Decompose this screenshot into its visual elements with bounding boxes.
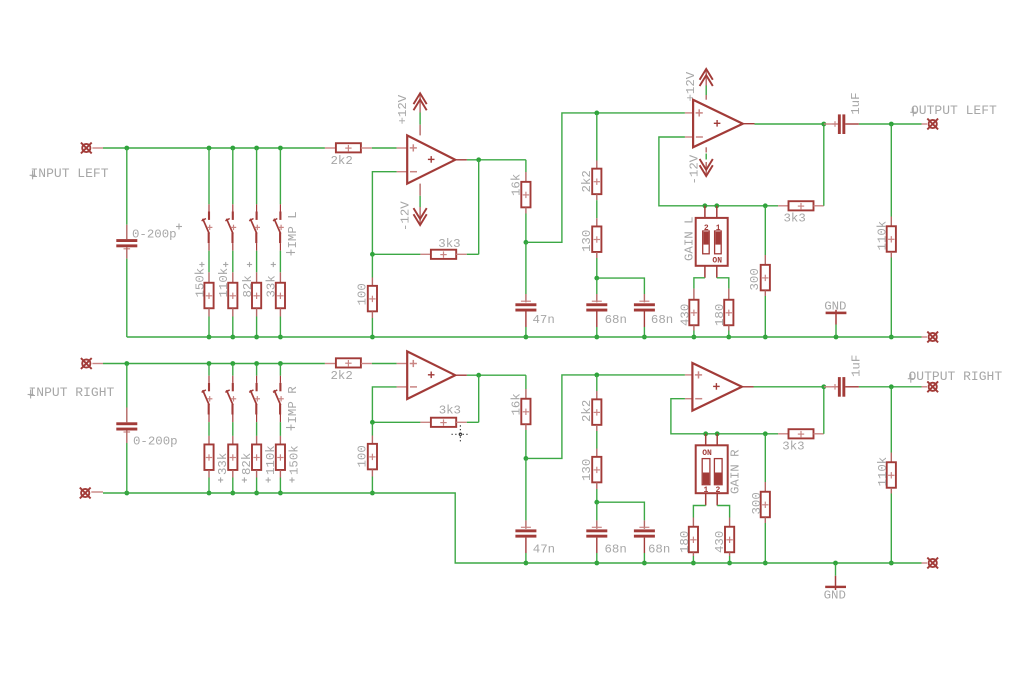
svg-text:110k: 110k bbox=[876, 457, 890, 487]
node junction 16k/47n (right) bbox=[524, 456, 529, 461]
node junction ground rail bbox=[230, 335, 235, 340]
resistor 430 (right) bbox=[729, 518, 731, 527]
switch S-150k (right) bbox=[279, 376, 281, 383]
node junction DIP pin1 (left) bbox=[703, 203, 708, 208]
op-amp U1 (left input stage) bbox=[397, 147, 408, 149]
node junction 430/ground (left) bbox=[692, 335, 697, 340]
wire U1 inverting input (left) bbox=[372, 172, 396, 255]
svg-text:GAIN R: GAIN R bbox=[729, 449, 743, 494]
capacitor 1uF (right) bbox=[824, 386, 838, 388]
wire switch to resistor 82k (left) bbox=[256, 251, 258, 273]
wire resistor 150k to ground rail (right) bbox=[279, 478, 281, 494]
resistor 150k (left) bbox=[208, 272, 210, 283]
wire 130 to 68n node (left) bbox=[596, 258, 598, 278]
node junction feedback/100 (left) bbox=[370, 252, 375, 257]
resistor 2k2 shunt chain (left) bbox=[596, 113, 598, 161]
op-amp U2 VEE stem bbox=[705, 147, 707, 152]
resistor 2k2 series (left) bbox=[325, 147, 336, 149]
resistor 110k (right) bbox=[256, 436, 258, 445]
node junction 68n-1/ground (left) bbox=[594, 335, 599, 340]
node junction 110k top (left) bbox=[889, 122, 894, 127]
node junction ground rail bbox=[254, 335, 259, 340]
svg-text:47n: 47n bbox=[533, 543, 555, 557]
svg-text:300: 300 bbox=[748, 268, 762, 290]
op-amp U2 VCC stem bbox=[705, 71, 707, 86]
label INPUT RIGHT bbox=[30, 390, 32, 399]
wire switch to resistor 33k (left) bbox=[279, 251, 281, 273]
wire resistor 33k to ground rail (right) bbox=[208, 478, 210, 494]
node junction switch column top bbox=[207, 146, 212, 151]
wire to second 68n (left) bbox=[597, 278, 645, 294]
wire 0-200p top (left) bbox=[126, 148, 128, 225]
svg-text:130: 130 bbox=[580, 459, 594, 481]
node junction switch column top (right) bbox=[278, 361, 283, 366]
op-amp U1 VCC stem bbox=[419, 95, 421, 113]
svg-text:68n: 68n bbox=[648, 543, 670, 557]
node junction 16k/47n (left) bbox=[524, 240, 529, 245]
wire U2 inverting input (left) bbox=[659, 137, 778, 206]
wire 100 to ground rail (left) bbox=[371, 318, 373, 337]
svg-text:430: 430 bbox=[678, 304, 692, 326]
node junction feedback/100 (right) bbox=[370, 420, 375, 425]
wire to second 68n (right) bbox=[597, 502, 645, 520]
ground rail (left channel) bbox=[127, 336, 922, 338]
node junction 2k2-chain top (right) bbox=[594, 373, 599, 378]
resistor 16k (left) bbox=[525, 160, 527, 172]
wire switch to resistor 150k (right) bbox=[279, 422, 281, 436]
connector pad OUTPUT RIGHT bbox=[922, 386, 928, 388]
wire 16k to node (right) bbox=[525, 430, 527, 458]
svg-text:+12V: +12V bbox=[396, 94, 410, 124]
switch S-82k (right) bbox=[232, 376, 234, 383]
resistor 100 (right) bbox=[371, 422, 373, 435]
node junction ground rail (right) bbox=[207, 491, 212, 496]
resistor 300 (left) bbox=[764, 206, 766, 255]
op-amp U2 (left output stage) bbox=[685, 112, 693, 114]
node junction 300 top (right) bbox=[763, 431, 768, 436]
svg-text:2k2: 2k2 bbox=[331, 369, 353, 383]
wire switch column 82k upper (left) bbox=[256, 148, 258, 204]
wire switch to resistor 110k (right) bbox=[256, 422, 258, 436]
svg-text:68n: 68n bbox=[605, 313, 627, 327]
node junction switch column top (right) bbox=[254, 361, 259, 366]
wire 2k2-130 link (right) bbox=[596, 431, 598, 449]
node junction ground rail (right) bbox=[254, 491, 259, 496]
wire switch column 150k upper (left) bbox=[208, 148, 210, 204]
power symbol -12V (U1) bbox=[414, 214, 427, 225]
wire 0-200p bottom to rail (left) bbox=[126, 259, 128, 337]
wire U4 output (right) bbox=[742, 386, 754, 388]
capacitor 47n (left) bbox=[525, 242, 527, 294]
node junction DIP pin2 (right) bbox=[715, 431, 720, 436]
wire 1uF to output pad (right) bbox=[859, 386, 922, 388]
wire DIP to 430 (right) bbox=[717, 506, 729, 518]
connector pad ground rail (left) bbox=[922, 336, 928, 338]
svg-text:INPUT RIGHT: INPUT RIGHT bbox=[29, 385, 115, 400]
resistor 3k3 feedback (left) bbox=[420, 253, 431, 255]
capacitor 0-200p (right) bbox=[126, 408, 128, 423]
wire 2k2-130 link (left) bbox=[596, 200, 598, 218]
wire U3 output (right) bbox=[455, 374, 467, 376]
connector pad INPUT LEFT bbox=[82, 144, 90, 152]
wire input-right rail bbox=[103, 363, 325, 365]
wire feedback vertical (left) bbox=[478, 160, 480, 255]
node junction ground rail (right) bbox=[278, 491, 283, 496]
wire feedback rail (right) bbox=[372, 421, 420, 423]
resistor 3k3 (right output feedback) bbox=[778, 433, 788, 435]
svg-text:33k: 33k bbox=[265, 275, 279, 297]
node junction DIP pin2 (left) bbox=[714, 203, 719, 208]
svg-text:3k3: 3k3 bbox=[784, 211, 806, 225]
node junction 300/ground (left) bbox=[763, 335, 768, 340]
svg-text:150k: 150k bbox=[193, 268, 207, 298]
wire switch column 150k upper (right) bbox=[279, 364, 281, 376]
wire resistor 33k to ground rail (left) bbox=[279, 317, 281, 338]
wire resistor 110k to ground rail (right) bbox=[256, 478, 258, 494]
op-amp U1 VEE stem bbox=[419, 184, 421, 196]
node junction switch column top (right) bbox=[230, 361, 235, 366]
svg-text:1uF: 1uF bbox=[849, 92, 863, 114]
connector pad OUTPUT LEFT bbox=[922, 123, 928, 125]
svg-text:GND: GND bbox=[824, 589, 846, 603]
label OUTPUT RIGHT bbox=[910, 374, 912, 383]
op-amp U3 (right input stage) bbox=[397, 363, 408, 365]
wire switch to resistor 150k (left) bbox=[208, 251, 210, 273]
capacitor 68n first (left) bbox=[596, 278, 598, 294]
wire resistor 82k to ground rail (left) bbox=[256, 317, 258, 338]
node junction 100/ground rail (left) bbox=[370, 335, 375, 340]
node junction 300 top (left) bbox=[763, 203, 768, 208]
svg-text:ON: ON bbox=[702, 449, 712, 458]
node junction 180/ground (right) bbox=[691, 561, 696, 566]
svg-text:16k: 16k bbox=[510, 393, 524, 415]
wire 0-200p top (right) bbox=[126, 364, 128, 408]
node junction DIP pin1 (right) bbox=[703, 431, 708, 436]
svg-text:3k3: 3k3 bbox=[782, 440, 804, 454]
svg-text:IMP L: IMP L bbox=[286, 211, 300, 248]
wire 100 to ground rail (right) bbox=[371, 477, 373, 494]
wire 2k2 to op-amp (right) bbox=[372, 363, 397, 365]
svg-text:OUTPUT LEFT: OUTPUT LEFT bbox=[911, 103, 997, 118]
svg-text:130: 130 bbox=[580, 230, 594, 252]
switch S-33k (left) bbox=[279, 204, 281, 211]
dip-switch GAIN L bbox=[704, 206, 706, 218]
wire U4 inverting input (right) bbox=[671, 399, 778, 434]
wire U1 output (left) bbox=[455, 159, 467, 161]
resistor 33k (right) bbox=[208, 436, 210, 445]
node junction 47n/ground rail (right) bbox=[524, 561, 529, 566]
node junction 68n-2/ground (left) bbox=[642, 335, 647, 340]
svg-text:150k: 150k bbox=[288, 445, 302, 475]
svg-text:430: 430 bbox=[713, 531, 727, 553]
wire U3 inverting input (right) bbox=[372, 387, 396, 422]
wire resistor 82k to ground rail (right) bbox=[232, 478, 234, 494]
wire 3k3 to U2 output (left) bbox=[823, 124, 825, 206]
node junction 430/ground (right) bbox=[727, 561, 732, 566]
label INPUT LEFT bbox=[32, 170, 34, 179]
resistor 130 (right) bbox=[596, 449, 598, 457]
svg-text:100: 100 bbox=[356, 283, 370, 305]
resistor 16k (right) bbox=[525, 375, 527, 389]
wire 16k node to op-amp U4 (right) bbox=[526, 375, 685, 459]
wire DIP to 430 (left) bbox=[694, 278, 705, 289]
capacitor 68n first (right) bbox=[596, 502, 598, 520]
node junction cap/ground rail (right) bbox=[124, 491, 129, 496]
wire 16k node to op-amp U2 (left) bbox=[526, 113, 685, 242]
resistor 33k (left) bbox=[279, 272, 281, 283]
wire resistor 110k to ground rail (left) bbox=[232, 317, 234, 338]
node junction switch column top bbox=[230, 146, 235, 151]
resistor 180 (left) bbox=[728, 289, 730, 300]
node junction 68n caps (right) bbox=[594, 500, 599, 505]
connector pad ground-left (right) bbox=[81, 489, 89, 497]
switch S-33k (right) bbox=[208, 376, 210, 383]
wire switch column 82k upper (right) bbox=[232, 364, 234, 376]
wire switch column 33k upper (right) bbox=[208, 364, 210, 376]
wire DIP to 180 (right) bbox=[693, 506, 705, 518]
node junction switch column top bbox=[254, 146, 259, 151]
wire DIP to 180 (left) bbox=[717, 278, 729, 289]
svg-text:0-200p: 0-200p bbox=[132, 227, 177, 241]
wire 2k2 to op-amp (left) bbox=[372, 147, 397, 149]
svg-text:GAIN L: GAIN L bbox=[683, 216, 697, 261]
ground symbol GND (right) bbox=[833, 561, 838, 566]
node junction 110k/ground (right) bbox=[889, 561, 894, 566]
svg-text:-12V: -12V bbox=[399, 201, 413, 231]
resistor 2k2 shunt chain (right) bbox=[596, 375, 598, 391]
node junction 100/ground rail (right) bbox=[370, 491, 375, 496]
svg-text:68n: 68n bbox=[651, 313, 673, 327]
svg-text:110k: 110k bbox=[876, 221, 890, 251]
wire switch column 33k upper (left) bbox=[279, 148, 281, 204]
resistor 150k (right) bbox=[279, 436, 281, 445]
node junction 68n caps (left) bbox=[594, 276, 599, 281]
node junction U1 output/feedback bbox=[476, 157, 481, 162]
svg-text:2k2: 2k2 bbox=[331, 154, 353, 168]
svg-text:300: 300 bbox=[750, 492, 764, 514]
node junction ground rail bbox=[278, 335, 283, 340]
wire 16k to node (left) bbox=[525, 214, 527, 243]
ground rail (right channel) bbox=[103, 493, 922, 563]
svg-text:2k2: 2k2 bbox=[580, 170, 594, 192]
switch S-110k (right) bbox=[256, 376, 258, 383]
svg-text:16k: 16k bbox=[509, 174, 523, 196]
node junction 68n-1/ground (right) bbox=[594, 561, 599, 566]
svg-text:OUTPUT RIGHT: OUTPUT RIGHT bbox=[909, 369, 1003, 384]
dip-switch GAIN R bbox=[705, 434, 707, 446]
svg-text:47n: 47n bbox=[533, 313, 555, 327]
wire switch to resistor 33k (right) bbox=[208, 422, 210, 436]
resistor 110k (left) bbox=[890, 124, 892, 217]
capacitor 47n (right) bbox=[525, 458, 527, 520]
capacitor 68n second (right) bbox=[643, 520, 645, 528]
svg-text:110k: 110k bbox=[217, 268, 231, 298]
wire switch column 110k upper (right) bbox=[256, 364, 258, 376]
resistor 110k (left) bbox=[232, 272, 234, 283]
node junction U2 output/1uF (left) bbox=[821, 122, 826, 127]
cursor crosshair bbox=[452, 433, 470, 435]
switch S-82k (left) bbox=[256, 204, 258, 211]
connector pad INPUT RIGHT bbox=[82, 359, 90, 367]
resistor 300 (right) bbox=[764, 434, 766, 482]
resistor 82k (left) bbox=[256, 272, 258, 283]
ground symbol GND (left) bbox=[834, 335, 839, 340]
svg-text:100: 100 bbox=[356, 445, 370, 467]
svg-text:68n: 68n bbox=[605, 543, 627, 557]
svg-text:IMP R: IMP R bbox=[286, 386, 300, 424]
node junction ground rail bbox=[207, 335, 212, 340]
node junction 180/ground (left) bbox=[726, 335, 731, 340]
op-amp U4 (right output stage) bbox=[685, 374, 693, 376]
resistor 130 (left) bbox=[596, 218, 598, 226]
wire resistor 150k to ground rail (left) bbox=[208, 317, 210, 338]
capacitor 68n second (left) bbox=[643, 294, 645, 302]
wire feedback rail (left) bbox=[372, 253, 420, 255]
node junction 68n-2/ground (right) bbox=[642, 561, 647, 566]
wire switch to resistor 110k (left) bbox=[232, 251, 234, 273]
wire input-left rail bbox=[103, 147, 325, 149]
power symbol -12V (U2) bbox=[700, 165, 713, 176]
label OUTPUT LEFT bbox=[912, 107, 914, 116]
resistor 100 (left) bbox=[371, 254, 373, 277]
resistor 3k3 (left output feedback) bbox=[778, 205, 788, 207]
svg-text:GND: GND bbox=[824, 300, 846, 314]
node junction 2k2-chain top (left) bbox=[594, 111, 599, 116]
wire U2 output (left) bbox=[743, 123, 755, 125]
power symbol +12V (U2) bbox=[700, 69, 713, 80]
svg-text:2: 2 bbox=[716, 486, 721, 495]
switch S-110k (left) bbox=[232, 204, 234, 211]
svg-text:1uF: 1uF bbox=[849, 355, 863, 377]
svg-text:ON: ON bbox=[712, 257, 722, 266]
svg-text:3k3: 3k3 bbox=[438, 237, 460, 251]
node junction U3 output/feedback bbox=[476, 373, 481, 378]
node junction input-right/cap bbox=[124, 361, 129, 366]
resistor 110k (right) bbox=[890, 387, 892, 453]
power symbol +12V (U1) bbox=[414, 93, 427, 104]
svg-text:INPUT LEFT: INPUT LEFT bbox=[31, 166, 109, 181]
svg-text:82k: 82k bbox=[241, 275, 255, 297]
wire 130 to 68n node (right) bbox=[596, 489, 598, 502]
svg-text:0-200p: 0-200p bbox=[133, 435, 178, 449]
wire switch column 110k upper (left) bbox=[232, 148, 234, 204]
resistor 3k3 feedback (right) bbox=[420, 421, 431, 423]
capacitor 0-200p (left) bbox=[126, 225, 128, 239]
wire 0-200p bottom to rail (right) bbox=[126, 443, 128, 493]
resistor 2k2 series (right) bbox=[325, 363, 336, 365]
capacitor 1uF (left) bbox=[824, 123, 838, 125]
node junction switch column top (right) bbox=[207, 361, 212, 366]
node junction 300/ground (right) bbox=[763, 561, 768, 566]
node junction 110k/ground (left) bbox=[889, 335, 894, 340]
node junction ground rail (right) bbox=[230, 491, 235, 496]
svg-text:2k2: 2k2 bbox=[580, 400, 594, 422]
wire 3k3 to U4 output (right) bbox=[823, 387, 825, 434]
svg-text:+12V: +12V bbox=[684, 71, 698, 101]
svg-text:180: 180 bbox=[678, 531, 692, 553]
svg-text:-12V: -12V bbox=[688, 154, 702, 184]
node junction 110k top (right) bbox=[889, 384, 894, 389]
svg-text:3k3: 3k3 bbox=[439, 404, 461, 418]
node junction switch column top bbox=[278, 146, 283, 151]
svg-text:180: 180 bbox=[713, 304, 727, 326]
connector pad ground rail (right) bbox=[922, 562, 928, 564]
wire 1uF to output pad (left) bbox=[859, 123, 922, 125]
wire feedback vertical (right) bbox=[478, 375, 480, 422]
resistor 82k (right) bbox=[232, 436, 234, 445]
switch S-150k (left) bbox=[208, 204, 210, 211]
node junction U4 output/1uF (right) bbox=[821, 384, 826, 389]
node junction 47n/ground rail (left) bbox=[524, 335, 529, 340]
resistor 430 (left) bbox=[693, 289, 695, 300]
node junction input-left/cap bbox=[124, 146, 129, 151]
wire switch to resistor 82k (right) bbox=[232, 422, 234, 436]
resistor 180 (right) bbox=[692, 518, 694, 527]
